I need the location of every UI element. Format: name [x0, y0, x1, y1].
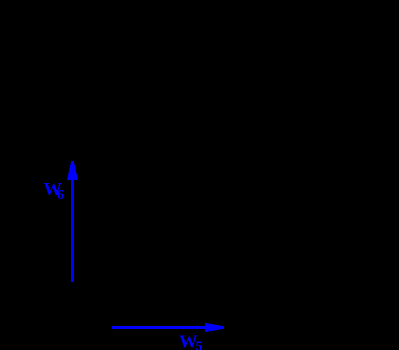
svg-text:5: 5: [196, 340, 203, 350]
svg-text:6: 6: [57, 188, 64, 203]
